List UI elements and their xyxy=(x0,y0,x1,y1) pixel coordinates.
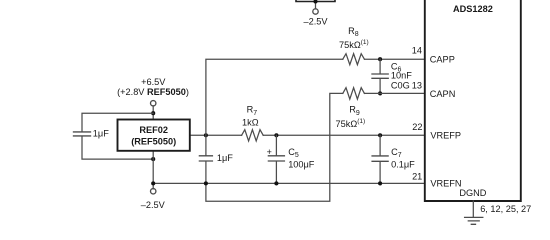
wire top supply box fragment xyxy=(296,0,335,2)
wire DGND stem xyxy=(472,201,474,217)
IC U2 ADS1282 box xyxy=(425,0,521,201)
svg-text:13: 13 xyxy=(412,81,422,91)
capacitor C5 plates xyxy=(268,156,284,161)
resistor R7 zigzag xyxy=(242,130,264,141)
capacitor 1uF mid bottom lead xyxy=(205,161,207,183)
capacitor C6 top lead xyxy=(379,59,381,73)
junction dot C7 top xyxy=(378,133,382,137)
node -2.5V terminal (open circle, top) xyxy=(313,9,318,14)
capacitor 1uF mid top lead xyxy=(205,135,207,155)
wire REF02 output to R7 xyxy=(190,134,242,136)
svg-text:1kΩ: 1kΩ xyxy=(242,118,259,128)
capacitor C (1uF) left bypass plates xyxy=(74,132,91,136)
svg-text:75kΩ(1): 75kΩ(1) xyxy=(339,39,369,50)
svg-text:CAPN: CAPN xyxy=(430,89,456,99)
junction dot left cap bottom xyxy=(151,157,155,161)
capacitor C7 plates xyxy=(372,156,388,161)
wire -2.5V stub at top xyxy=(315,2,317,9)
svg-text:CAPP: CAPP xyxy=(430,54,455,64)
junction dot rail at REF02 ground xyxy=(151,181,155,185)
svg-text:ADS1282: ADS1282 xyxy=(453,4,493,14)
capacitor C5 bottom lead xyxy=(275,161,277,183)
svg-text:REF02: REF02 xyxy=(139,125,168,135)
capacitor 1uF mid plates xyxy=(199,156,212,161)
svg-text:22: 22 xyxy=(412,122,422,132)
capacitor C5 top lead xyxy=(275,135,277,155)
wire -2.5V bottom rail to VREFN pin 21 xyxy=(153,182,425,184)
svg-text:(+2.8V REF5050): (+2.8V REF5050) xyxy=(117,87,189,97)
svg-text:14: 14 xyxy=(412,46,422,56)
capacitor C6 bottom lead xyxy=(379,79,381,94)
svg-text:0.1μF: 0.1μF xyxy=(391,160,415,170)
capacitor C7 top lead xyxy=(379,135,381,155)
svg-text:C0G: C0G xyxy=(391,81,410,91)
wire vertical from R8 line down to REF02 output node xyxy=(206,59,343,135)
junction dot rail at 1uF mid xyxy=(204,181,208,185)
svg-text:6, 12, 25, 27: 6, 12, 25, 27 xyxy=(480,204,531,214)
wire R9 right to CAPN pin 13 xyxy=(365,92,425,94)
wire from +6.5V terminal to REF02 VIN xyxy=(152,106,154,120)
svg-text:21: 21 xyxy=(412,171,422,181)
svg-text:+6.5V: +6.5V xyxy=(141,77,166,87)
svg-text:DGND: DGND xyxy=(459,188,486,198)
IC U1 REF02 box xyxy=(118,120,190,151)
resistor R9 zigzag xyxy=(343,88,365,99)
junction dot on top box bottom edge xyxy=(313,0,317,4)
junction dot C6 bottom xyxy=(378,91,382,95)
svg-text:R8: R8 xyxy=(348,26,359,38)
capacitor C7 bottom lead xyxy=(379,162,381,184)
svg-text:VREFP: VREFP xyxy=(430,131,461,141)
wire left bypass cap bottom xyxy=(82,136,153,159)
svg-text:+: + xyxy=(267,147,272,157)
junction dot rail at C5 xyxy=(274,181,278,185)
svg-text:R9: R9 xyxy=(349,105,360,117)
junction dot rail at C7 xyxy=(378,181,382,185)
junction dot VREFP source node xyxy=(204,133,208,137)
wire R8 right to CAPP pin 14 xyxy=(365,58,425,60)
wire REF02 ground lead down to -2.5V xyxy=(152,151,154,189)
wire left bypass cap top xyxy=(82,113,153,131)
svg-text:VREFN: VREFN xyxy=(430,179,461,189)
junction dot C6 top xyxy=(378,57,382,61)
svg-text:1μF: 1μF xyxy=(217,153,233,163)
svg-text:–2.5V: –2.5V xyxy=(141,200,166,210)
svg-text:1μF: 1μF xyxy=(93,129,109,139)
node +6.5V terminal (open circle) xyxy=(151,101,156,106)
junction dot REF02 input node xyxy=(151,111,155,115)
ground symbol xyxy=(465,217,483,224)
junction dot C5 top xyxy=(274,133,278,137)
capacitor C6 plates xyxy=(372,74,388,78)
svg-text:75kΩ(1): 75kΩ(1) xyxy=(336,118,366,129)
svg-text:C7: C7 xyxy=(391,147,402,159)
wire R9 left branch down and around to -2.5V rail xyxy=(206,93,343,201)
svg-text:100μF: 100μF xyxy=(288,159,315,169)
svg-text:C5: C5 xyxy=(288,147,299,159)
resistor R8 zigzag xyxy=(343,54,365,65)
node -2.5V terminal (open circle, bottom left) xyxy=(151,189,156,194)
wire R7 right to VREFP pin 22 xyxy=(263,134,425,136)
svg-text:R7: R7 xyxy=(247,105,258,117)
svg-text:–2.5V: –2.5V xyxy=(303,16,328,26)
svg-text:(REF5050): (REF5050) xyxy=(131,136,176,146)
svg-text:10nF: 10nF xyxy=(391,71,412,81)
